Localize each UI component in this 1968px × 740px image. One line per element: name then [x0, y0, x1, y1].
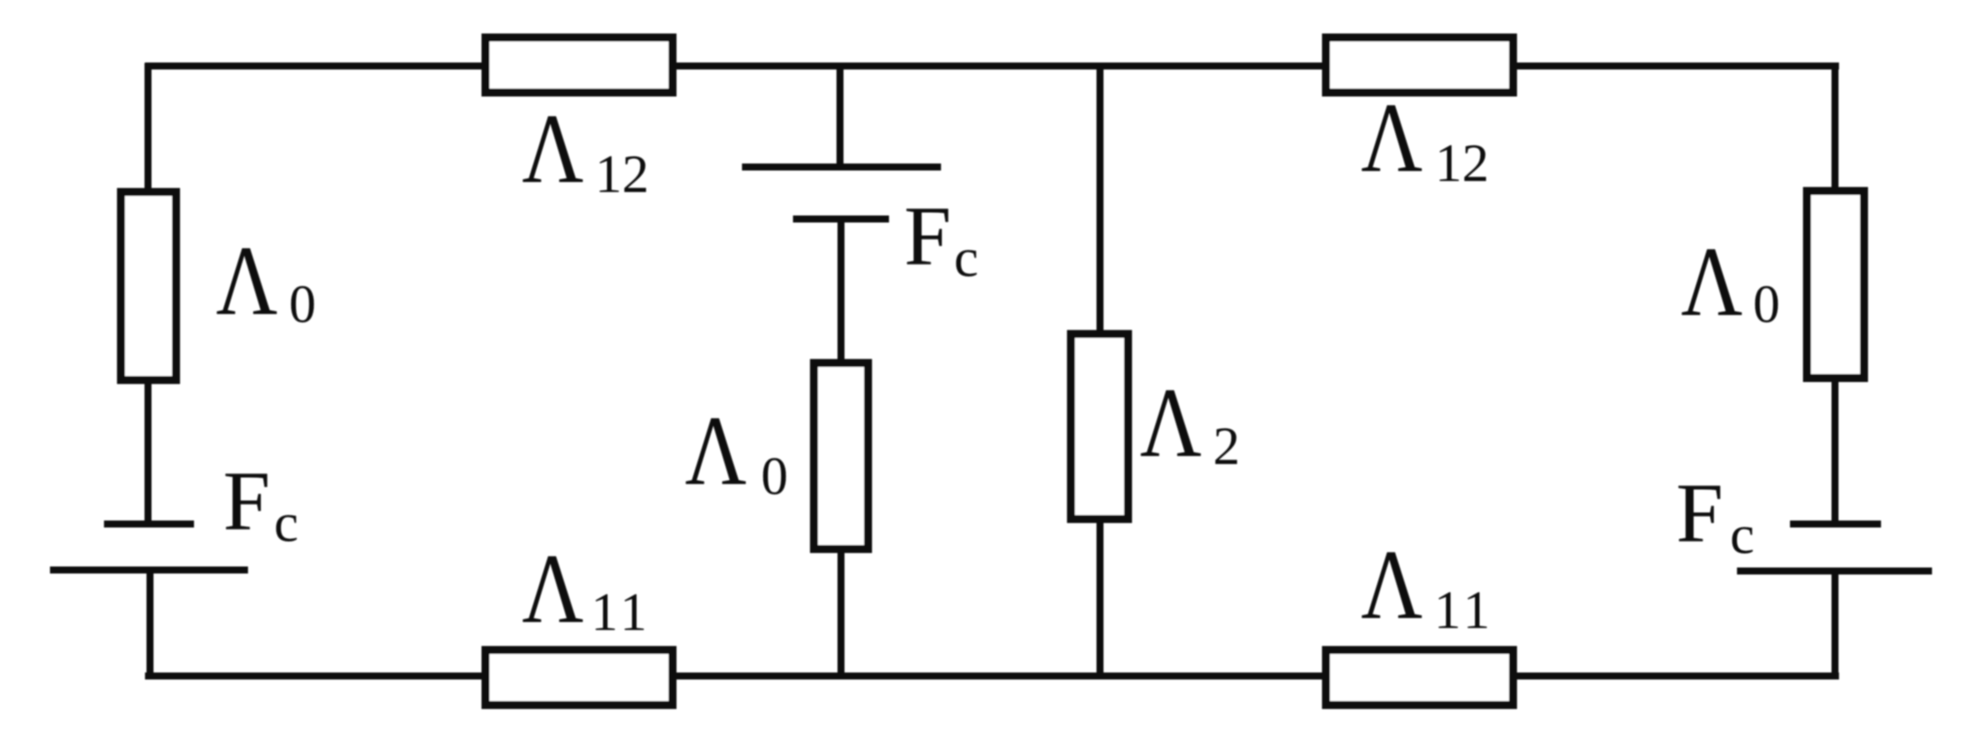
resistor Lambda12 top-right box	[1326, 38, 1513, 93]
wire left branch upper	[145, 63, 152, 524]
wire bottom horizontal	[145, 673, 1839, 680]
svg-text:0: 0	[1753, 274, 1780, 334]
svg-text:12: 12	[595, 144, 649, 204]
svg-text:Λ: Λ	[216, 226, 278, 337]
battery Fc left long plate	[50, 567, 248, 574]
svg-text:11: 11	[591, 582, 651, 642]
svg-text:2: 2	[1213, 416, 1240, 476]
svg-text:Λ: Λ	[522, 534, 584, 645]
svg-text:F: F	[223, 454, 270, 548]
wire right branch lower	[1832, 571, 1839, 676]
svg-text:F: F	[904, 189, 951, 283]
svg-text:Λ: Λ	[1361, 83, 1423, 194]
wire middle branch upper	[837, 63, 844, 167]
battery Fc right short plate	[1790, 521, 1881, 528]
svg-text:c: c	[274, 492, 298, 553]
svg-text:Λ: Λ	[685, 396, 747, 507]
battery Fc middle long plate	[742, 164, 941, 171]
svg-text:12: 12	[1435, 133, 1489, 193]
battery Fc middle short plate	[793, 216, 889, 223]
svg-text:c: c	[1730, 504, 1754, 565]
resistor Lambda0 right box	[1807, 191, 1864, 378]
svg-text:c: c	[954, 227, 978, 288]
resistor Lambda2 box	[1071, 334, 1128, 519]
wire node branch	[1097, 63, 1104, 676]
resistor Lambda0 left box	[121, 192, 176, 380]
svg-text:Λ: Λ	[1361, 530, 1423, 641]
battery Fc left short plate	[104, 521, 194, 528]
svg-text:11: 11	[1434, 580, 1494, 640]
svg-text:F: F	[1676, 466, 1723, 560]
resistor Lambda12 top-left box	[486, 38, 673, 93]
wire top horizontal	[145, 63, 1839, 70]
svg-text:0: 0	[289, 274, 316, 334]
resistor Lambda0 middle box	[814, 363, 868, 549]
wire right branch upper	[1832, 63, 1839, 524]
resistor Lambda11 bottom-right box	[1326, 650, 1513, 705]
svg-text:Λ: Λ	[522, 94, 584, 205]
svg-text:0: 0	[761, 446, 788, 506]
wire middle branch lower	[838, 219, 845, 676]
svg-text:Λ: Λ	[1140, 368, 1202, 479]
wire left branch lower	[147, 570, 154, 676]
battery Fc right long plate	[1737, 568, 1932, 575]
resistor Lambda11 bottom-left box	[486, 650, 673, 705]
svg-text:Λ: Λ	[1681, 227, 1743, 338]
